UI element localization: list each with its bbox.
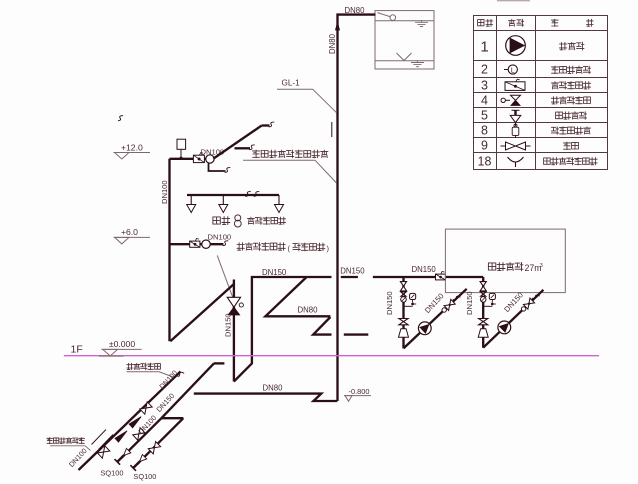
1F floor line (magenta): [64, 355, 599, 357]
legend name gate valve: [563, 142, 578, 150]
svg-text:DN150: DN150: [340, 266, 365, 275]
legend symbol dry alarm valve: [501, 98, 505, 102]
pipe: adapter branch 1: [121, 418, 161, 458]
branch stub lower with break: [209, 164, 226, 172]
pipe: adapter manifold jog: [161, 417, 183, 419]
legend name auto exhaust valve: [551, 127, 590, 135]
pipe: pump A suction vertical DN150: [402, 277, 404, 348]
pump B discharge valve: [523, 298, 534, 309]
legend symbol signal valve: [505, 82, 525, 91]
water flow indicator at +6: [202, 240, 210, 248]
cropped title above legend: [497, 0, 530, 2]
pipe: left vertical DN100: [168, 159, 170, 341]
signal valve box at +6: [190, 241, 200, 247]
adapter 2 cone and tee: [140, 455, 147, 462]
svg-text:4: 4: [481, 94, 488, 108]
flow arrow on riser top: [336, 23, 340, 31]
pump A reducer cone: [399, 329, 409, 337]
svg-text:±0.000: ±0.000: [109, 339, 135, 349]
break marks on sprinkler row: [245, 190, 251, 197]
svg-text:1: 1: [480, 38, 488, 55]
pipe: pump B discharge diagonal: [483, 290, 543, 348]
adapter 2 valve: [148, 442, 160, 454]
floating break mark upper left: [118, 115, 123, 122]
adapter 1 valve: [133, 428, 145, 440]
elevation marker -0.800: [344, 395, 371, 397]
legend symbol water flow indicator: [504, 69, 508, 71]
text: connect to municipal water: [47, 438, 85, 444]
pump B suction valves: [480, 282, 486, 287]
pipe: pump A discharge diagonal: [404, 289, 467, 349]
legend header ming cheng: [551, 19, 558, 26]
svg-text:2: 2: [481, 63, 488, 77]
pipe: DN150 corner left segment: [234, 277, 332, 382]
svg-text:SQ100: SQ100: [101, 469, 124, 478]
pipe: DN80 zigzag crossing: [265, 277, 330, 316]
city water break: [176, 370, 184, 378]
pump A discharge check circle: [442, 308, 446, 312]
svg-text:3: 3: [481, 79, 488, 93]
svg-text:18: 18: [478, 154, 492, 168]
svg-text:1F: 1F: [71, 344, 83, 356]
pipe: N-structure stub: [214, 362, 225, 364]
svg-text:3: 3: [540, 263, 543, 269]
svg-text:SQ100: SQ100: [133, 472, 156, 481]
pump A discharge valve: [444, 299, 455, 310]
water tank (roof fire water tank): [375, 11, 434, 69]
svg-text:-0.800: -0.800: [349, 387, 370, 396]
pump B circle with impeller: [498, 321, 511, 334]
legend name pump: [559, 42, 584, 50]
pump B lower valve: [479, 319, 488, 322]
tank water level symbols: [415, 20, 428, 27]
sprinkler head 2: [219, 195, 228, 213]
svg-text:8: 8: [481, 124, 488, 138]
legend table grid: [474, 16, 608, 170]
pump A pressure gauges: [401, 297, 407, 303]
pipe: +6 level horizontal DN100: [170, 243, 224, 245]
svg-text:DN80: DN80: [328, 33, 337, 54]
city water flow arrows: [129, 417, 141, 428]
legend name closed sprinkler: [556, 112, 587, 120]
svg-text:DN150: DN150: [412, 265, 437, 274]
legend symbol closed sprinkler: [512, 110, 520, 124]
text: mei hang 8 zhi bi shi pen tou: [213, 217, 230, 225]
branch stub middle with break: [235, 147, 251, 149]
legend name signal valve: [551, 82, 590, 90]
text: fire pool 27m3: [488, 262, 523, 270]
pump A suction valves: [400, 282, 406, 287]
city water double slash: [92, 430, 114, 450]
signal valve box on pump line: [436, 274, 446, 280]
pipe: dry alarm valve riser DN150: [233, 280, 235, 382]
fire pool rectangle: [445, 229, 565, 293]
svg-text:DN100: DN100: [208, 233, 232, 242]
pipe: DN150 diagonal to pump adapters: [161, 363, 214, 418]
pipe: main riser stub right: [341, 276, 358, 278]
legend header xu hao: [478, 19, 493, 26]
pipe: adapter branch 2: [137, 418, 183, 464]
svg-text:DN100: DN100: [160, 180, 169, 204]
legend symbol auto exhaust valve: [512, 124, 519, 138]
branch stub top with break: [262, 124, 270, 126]
svg-text:DN80: DN80: [298, 305, 319, 314]
svg-text:5: 5: [481, 109, 488, 123]
legend symbol pump adapter: [508, 157, 524, 162]
svg-text:GL-1: GL-1: [282, 79, 301, 88]
text: roof tank refill pipe label: [252, 150, 328, 158]
pipe: city water diagonal DN100: [79, 372, 181, 471]
svg-text:+12.0: +12.0: [121, 142, 143, 152]
elevation marker +-0.000: [101, 348, 141, 350]
pipe: 45 diag from left vertical to dry valve riser: [170, 284, 234, 341]
break at +6 stub: [223, 240, 229, 247]
city water gate valve upper: [140, 402, 152, 414]
pipe: sprinkler branch row: [187, 194, 279, 196]
legend name pump adapter: [544, 158, 598, 165]
svg-text:+6.0: +6.0: [121, 227, 138, 237]
elevation marker +12.0: [114, 152, 151, 154]
pump A circle with impeller: [418, 322, 431, 335]
svg-text:DN150: DN150: [385, 291, 394, 315]
leader to dry alarm valve: [217, 255, 233, 298]
pipe: main horizontal DN150 to pumps: [373, 276, 483, 278]
legend symbol pump: [506, 36, 526, 56]
svg-text:DN80: DN80: [263, 384, 284, 393]
dry alarm valve symbol: [227, 297, 240, 307]
pipe: DN80 riser top elbow into tank: [338, 15, 376, 401]
pump B pressure gauges: [480, 297, 486, 303]
pump B discharge break: [532, 293, 540, 301]
pump B discharge check circle: [521, 307, 525, 311]
sprinkler head 1: [187, 195, 196, 213]
pipe: DN80 dash right of riser: [344, 333, 369, 335]
text: dry alarm valve group (incl air compressor): [237, 243, 285, 251]
pump A lower valve: [399, 319, 408, 322]
svg-text:DN150: DN150: [224, 313, 233, 337]
pump A discharge break: [453, 294, 461, 302]
text: to fire pool label: [127, 363, 161, 370]
float valve in tank: [378, 13, 396, 21]
svg-text:L: L: [511, 68, 515, 75]
water flow indicator at +12: [206, 155, 214, 163]
legend symbol gate valve: [501, 145, 506, 147]
city water gate valve lower: [97, 446, 109, 458]
svg-text:DN150: DN150: [465, 291, 474, 315]
svg-text:DN150: DN150: [262, 268, 287, 277]
legend name water flow indicator: [551, 66, 590, 74]
legend header tu li: [508, 19, 523, 26]
svg-text:DN80: DN80: [345, 6, 366, 15]
pipe: diagonal branch to upper sprinkler stubs: [213, 126, 261, 159]
adapter 1 cone and tee: [124, 448, 131, 455]
elevation marker +6.0: [114, 236, 151, 238]
pump B reducer cone: [478, 329, 488, 337]
pipe: bottom DN80 horizontal with jog to riser: [194, 394, 337, 401]
sprinkler head 3: [275, 195, 284, 213]
svg-text:9: 9: [481, 138, 488, 152]
signal valve box at +12: [193, 155, 204, 162]
legend name dry alarm valve: [551, 97, 590, 105]
automatic exhaust valve at +12: [177, 139, 186, 160]
pipe: pump B suction vertical DN150: [482, 277, 484, 348]
pipe: +12 level horizontal DN100: [170, 158, 215, 160]
riser tick mark: [331, 122, 333, 137]
